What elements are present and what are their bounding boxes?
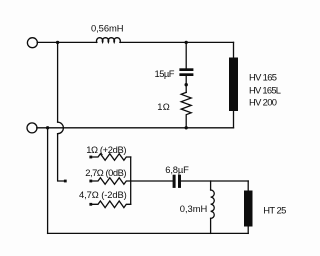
wire bottom rail xyxy=(48,232,249,234)
wire return vertical (lower rail to bottom rail) xyxy=(47,128,49,234)
wire HV speaker top lead xyxy=(233,42,235,57)
capacitor C2 6,8µF plates xyxy=(173,175,176,188)
wire hop over lower rail xyxy=(58,122,64,134)
wire row2 to capacitor C2 xyxy=(131,180,173,182)
svg-text:1Ω: 1Ω xyxy=(157,101,170,112)
svg-text:4,7Ω (-2dB): 4,7Ω (-2dB) xyxy=(79,189,127,200)
junction dot top rail / C1 branch xyxy=(185,41,188,44)
svg-text:6,8µF: 6,8µF xyxy=(165,164,189,175)
resistor R4 4,7Ω (-2dB) row xyxy=(92,201,131,208)
capacitor C1 15µF plates xyxy=(179,68,193,71)
junction dot lower rail / R1 branch xyxy=(185,126,188,129)
wire top rail left (J1 to inductor) xyxy=(37,41,97,43)
svg-text:HV 200: HV 200 xyxy=(249,96,277,107)
terminal J1 (top input) xyxy=(27,38,37,48)
junction dot C1/R1 xyxy=(185,83,188,86)
wire HT speaker bottom lead xyxy=(247,226,249,233)
wire top rail right (inductor to HV corner) xyxy=(120,41,234,43)
speaker HT (tweeter) xyxy=(244,191,253,227)
capacitor C1 bottom lead xyxy=(185,76,187,92)
svg-text:0,3mH: 0,3mH xyxy=(180,203,208,214)
resistor R3 2,7Ω (0dB) row xyxy=(92,178,131,185)
wire attenuator output connector vertical xyxy=(130,157,132,204)
solder pad row1 xyxy=(89,156,92,159)
svg-text:0,56mH: 0,56mH xyxy=(91,23,124,34)
wire capacitor C2 to HT corner xyxy=(181,180,248,182)
junction dot lower rail / return xyxy=(46,126,49,129)
solder pad row2 xyxy=(89,180,92,183)
inductor L2 bottom lead xyxy=(210,218,212,233)
wire lower rail (J2 to HV corner) xyxy=(37,127,234,129)
svg-text:2,7Ω (0dB): 2,7Ω (0dB) xyxy=(85,167,126,178)
svg-text:HT 25: HT 25 xyxy=(263,205,286,216)
wire HT speaker top lead xyxy=(247,181,249,191)
terminal J2 (bottom input) xyxy=(27,123,37,133)
solder pad attenuator feed xyxy=(64,180,67,183)
wire feed vertical from node A down to hop xyxy=(57,42,59,122)
solder pad row3 xyxy=(89,203,92,206)
resistor R1 1Ω (zigzag vertical) xyxy=(181,92,191,127)
svg-text:HV 165L: HV 165L xyxy=(249,84,281,95)
capacitor C1 15µF top lead xyxy=(185,42,187,68)
node A junction dot (top rail / feed) xyxy=(56,41,59,44)
speaker HV (woofer) xyxy=(229,58,238,112)
inductor L2 0,3mH top lead xyxy=(210,181,212,190)
svg-text:1Ω (+2dB): 1Ω (+2dB) xyxy=(86,144,126,155)
svg-text:15µF: 15µF xyxy=(155,68,175,79)
svg-text:HV 165: HV 165 xyxy=(249,71,277,82)
resistor R2 1Ω (+2dB) row xyxy=(92,154,131,161)
inductor L1 0,56mH xyxy=(97,38,121,43)
wire HV speaker bottom lead xyxy=(233,111,235,128)
wire feed vertical below hop down to attenuator feed xyxy=(58,134,64,181)
inductor L2 0,3mH coil xyxy=(211,190,215,218)
